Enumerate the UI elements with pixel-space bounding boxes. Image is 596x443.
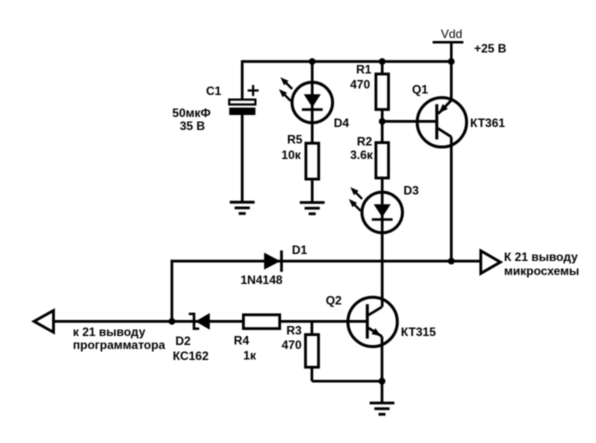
svg-text:35 В: 35 В: [180, 119, 206, 133]
svg-text:+25 В: +25 В: [474, 41, 507, 55]
wire: R3 bottom to emitter node: [312, 367, 382, 381]
wire: Q2 emitter down to ground: [381, 337, 384, 404]
label C1: [206, 84, 222, 98]
label R4 value 1k: [243, 349, 257, 363]
svg-text:Q2: Q2: [326, 294, 342, 308]
svg-text:микросхемы: микросхемы: [504, 264, 579, 278]
svg-text:К 21 выводу: К 21 выводу: [504, 250, 578, 264]
wire: +25V top rail: [242, 60, 451, 63]
svg-text:470: 470: [350, 78, 370, 92]
label R5 value 10k: [281, 148, 301, 162]
LED D4: [279, 77, 333, 123]
transistor Q1: [417, 98, 466, 147]
label R2 value 3.6k: [350, 148, 374, 162]
label R4: [234, 333, 250, 347]
node: rail junction to R1: [379, 58, 386, 65]
label R5: [287, 132, 303, 146]
node: rail junction at Vdd: [448, 58, 455, 65]
wire: R1 to R2: [381, 110, 384, 143]
LED D3: [349, 187, 403, 233]
terminal arrow to programmer: [34, 311, 54, 333]
resistor R5: [306, 143, 319, 179]
resistor R2: [376, 143, 389, 178]
label D3: [404, 183, 420, 197]
svg-text:50мкФ: 50мкФ: [172, 106, 210, 120]
wire: Vdd rail to Q1 emitter: [450, 62, 453, 101]
svg-text:R5: R5: [287, 132, 303, 146]
wire: rail corner down to C1: [241, 60, 244, 99]
terminal arrow to microcircuit: [481, 251, 501, 274]
svg-text:470: 470: [282, 338, 302, 352]
ground under C1: [230, 202, 255, 213]
wire: rail to R1: [381, 62, 384, 75]
diode D1: [264, 250, 281, 271]
svg-text:R4: R4: [234, 333, 250, 347]
svg-text:программатора: программатора: [73, 338, 166, 352]
label R1: [356, 63, 372, 77]
ground under R5: [300, 203, 325, 214]
svg-text:КТ361: КТ361: [470, 116, 505, 130]
label Q1: [412, 83, 428, 97]
wire: R2 through D3 down to Q2 collector: [381, 178, 384, 307]
svg-text:C1: C1: [206, 84, 222, 98]
svg-text:КС162: КС162: [173, 349, 209, 363]
svg-text:КТ315: КТ315: [401, 325, 436, 339]
label C1 value 50mkF: [172, 106, 210, 120]
svg-text:D3: D3: [404, 183, 420, 197]
svg-text:1к: 1к: [243, 349, 257, 363]
label D2 type KS162: [173, 349, 209, 363]
wire: Q1 base lead: [382, 120, 437, 123]
wire: R5 to ground: [311, 179, 314, 202]
node: rail junction to D4: [309, 58, 316, 65]
node: R1-R2 junction to Q1 base: [379, 118, 386, 125]
label D1 type 1N4148: [241, 273, 283, 287]
label R1 value 470: [350, 78, 370, 92]
svg-text:D4: D4: [334, 116, 350, 130]
capacitor C1 plus sign: [248, 85, 259, 96]
ground under Q2: [370, 403, 395, 414]
wire: R3 top stub: [311, 321, 314, 334]
label C1 value 35V: [180, 119, 206, 133]
node: programmer line junction: [169, 318, 176, 325]
label R3 value 470: [282, 338, 302, 352]
label D4: [334, 116, 350, 130]
svg-text:Vdd: Vdd: [441, 27, 462, 41]
label R2: [357, 134, 373, 148]
svg-text:R3: R3: [286, 323, 302, 337]
svg-text:1N4148: 1N4148: [241, 273, 283, 287]
label +25 V: [474, 41, 507, 55]
svg-text:R1: R1: [356, 63, 372, 77]
label Q2 type KT315: [401, 325, 436, 339]
resistor R1: [376, 74, 389, 110]
node: emitter-R3 junction: [379, 378, 386, 385]
power Vdd symbol: [433, 27, 464, 61]
label D2: [175, 334, 191, 348]
resistor R4: [243, 315, 279, 329]
wire: C1 to ground: [241, 115, 244, 202]
label Q2: [326, 294, 342, 308]
svg-text:D1: D1: [292, 243, 308, 257]
wire: rail through D4 to R5: [311, 62, 314, 144]
svg-text:3.6к: 3.6к: [350, 148, 374, 162]
node: output junction: [448, 258, 455, 265]
zener diode D2: [189, 313, 210, 330]
transistor Q2: [348, 297, 397, 346]
label Q1 type KT361: [470, 116, 505, 130]
label mikroshemy: [504, 264, 579, 278]
label K 21 vyvodu: [504, 250, 578, 264]
svg-text:Q1: Q1: [412, 83, 428, 97]
wire: programmer line: [54, 320, 368, 323]
svg-text:D2: D2: [175, 334, 191, 348]
label programmatora: [73, 338, 166, 352]
svg-text:R2: R2: [357, 134, 373, 148]
label R3: [286, 323, 302, 337]
wire: D1 line to output arrow: [171, 260, 481, 263]
resistor R3: [306, 335, 319, 368]
label D1: [292, 243, 308, 257]
svg-text:10к: 10к: [281, 148, 301, 162]
capacitor C1: [229, 100, 255, 115]
wire: left branch vertical: [171, 260, 174, 322]
label k 21 vyvodu: [73, 325, 146, 339]
wire: Q1 collector down to output node: [450, 137, 453, 261]
